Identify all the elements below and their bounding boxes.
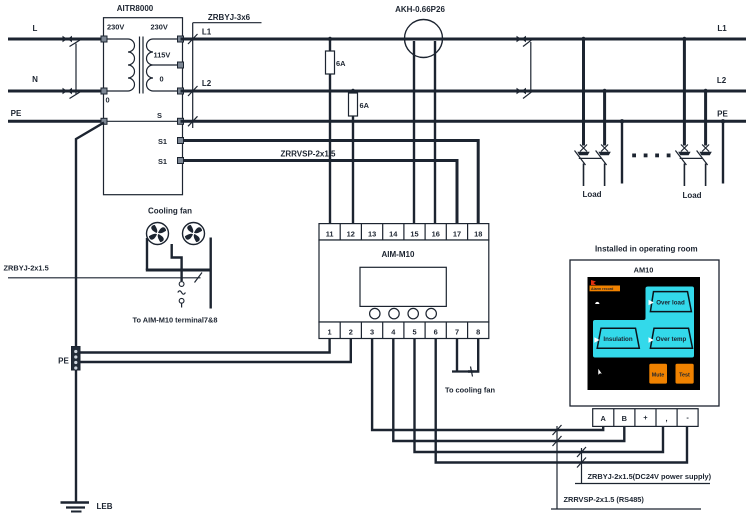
svg-text:115V: 115V bbox=[154, 51, 171, 60]
svg-text:Cooling fan: Cooling fan bbox=[148, 207, 192, 216]
svg-text:S1: S1 bbox=[158, 137, 167, 146]
svg-text:0: 0 bbox=[160, 75, 164, 84]
svg-text:Load: Load bbox=[682, 191, 701, 200]
svg-text:B: B bbox=[622, 414, 627, 423]
wire terminal 8 stub bbox=[468, 339, 478, 377]
load 2 label bbox=[682, 191, 701, 200]
breaker linkage 2 bbox=[680, 157, 703, 159]
fuse FU2 6A bbox=[349, 89, 370, 224]
svg-text:6: 6 bbox=[434, 328, 438, 337]
svg-text:L1: L1 bbox=[717, 24, 727, 33]
load branch 2 L1 drop bbox=[682, 37, 686, 146]
cable label ZRBYJ-3x6 bbox=[188, 13, 262, 128]
breaker QF1a bbox=[575, 145, 590, 187]
wire PE bus left bbox=[8, 120, 104, 123]
node N label bbox=[32, 75, 38, 84]
svg-text:3: 3 bbox=[370, 328, 374, 337]
svg-text:230V: 230V bbox=[107, 23, 124, 32]
svg-text:1: 1 bbox=[328, 328, 332, 337]
wire terminal 3 to panel A bbox=[372, 339, 603, 431]
button Over temp bbox=[649, 328, 693, 348]
wire CT secondary to terminal 15 bbox=[413, 41, 415, 224]
node L2 label right bbox=[717, 76, 727, 85]
switch linkage left bbox=[75, 44, 77, 95]
svg-text:5: 5 bbox=[412, 328, 416, 337]
svg-text:12: 12 bbox=[347, 230, 355, 239]
wire L1 bus bbox=[181, 38, 747, 41]
wire PE bus right bbox=[181, 120, 747, 123]
svg-text:Load: Load bbox=[582, 190, 601, 199]
svg-text:14: 14 bbox=[389, 230, 398, 239]
load 1 label bbox=[582, 190, 601, 199]
load branch 1 L2 drop bbox=[602, 89, 606, 146]
svg-text:AKH-0.66P26: AKH-0.66P26 bbox=[395, 5, 445, 14]
cable label ZRBYJ-2x1.5 bbox=[4, 264, 203, 283]
cable marker RS485 bbox=[551, 425, 701, 509]
svg-text:15: 15 bbox=[410, 230, 418, 239]
svg-text:8: 8 bbox=[476, 328, 480, 337]
cable marker DC24V bbox=[575, 447, 712, 484]
svg-text:L: L bbox=[33, 24, 38, 33]
svg-text:N: N bbox=[32, 75, 38, 84]
switch pole on L bbox=[63, 36, 83, 47]
button Mute bbox=[649, 364, 667, 384]
wire terminal 6 to panel minus bbox=[436, 339, 687, 463]
label to AIM-M10 terminal 7 8 bbox=[132, 316, 217, 325]
load branch 1 PE drop bbox=[620, 119, 624, 183]
node PE label right bbox=[717, 110, 728, 119]
switch pole on L2 right bbox=[517, 88, 534, 99]
switch pole on L1 right bbox=[517, 36, 534, 47]
node L2 label left bbox=[202, 79, 212, 88]
svg-text:ZRRVSP-2x1.5: ZRRVSP-2x1.5 bbox=[281, 150, 337, 159]
button Over load bbox=[649, 292, 692, 312]
svg-text:AM10: AM10 bbox=[634, 266, 654, 275]
ground LEB bbox=[61, 502, 113, 512]
wire terminal 1 to PE block bbox=[80, 339, 330, 353]
svg-text:Test: Test bbox=[679, 373, 690, 379]
svg-text:L1: L1 bbox=[202, 28, 212, 37]
wire CT secondary to terminal 16 bbox=[434, 41, 436, 224]
node L1 label right bbox=[717, 24, 727, 33]
svg-text:ZRBYJ-3x6: ZRBYJ-3x6 bbox=[208, 13, 251, 22]
svg-text:13: 13 bbox=[368, 230, 376, 239]
svg-text:18: 18 bbox=[474, 230, 482, 239]
load branch 2 PE drop bbox=[721, 119, 725, 183]
svg-text:Over load: Over load bbox=[656, 300, 685, 307]
svg-text:To cooling fan: To cooling fan bbox=[445, 386, 495, 395]
breaker QF2b bbox=[697, 145, 712, 187]
wire S1 lower to terminal 17 bbox=[184, 161, 458, 224]
monitor U1 AIM-M10 bbox=[319, 224, 489, 339]
label to cooling fan bbox=[445, 386, 495, 395]
button Test bbox=[676, 364, 694, 384]
wire PE to earth bbox=[76, 123, 104, 503]
node PE label bbox=[11, 109, 22, 118]
breaker QF2a bbox=[675, 145, 690, 187]
svg-text:6A: 6A bbox=[360, 101, 370, 110]
wire terminal 2 to PE block bbox=[80, 339, 351, 363]
svg-text:17: 17 bbox=[453, 230, 461, 239]
svg-text:7: 7 bbox=[455, 328, 459, 337]
wire S1 upper to terminal 18 bbox=[184, 141, 479, 224]
svg-text:Alarm record: Alarm record bbox=[591, 287, 613, 291]
svg-text:ZRBYJ-2x1.5(DC24V power supply: ZRBYJ-2x1.5(DC24V power supply) bbox=[588, 472, 712, 481]
svg-text:0: 0 bbox=[106, 96, 110, 105]
svg-text:Insulation: Insulation bbox=[603, 336, 632, 343]
current transformer AKH-0.66P26 bbox=[395, 5, 445, 58]
svg-text:PE: PE bbox=[11, 109, 22, 118]
alarm banner orange bbox=[590, 286, 621, 292]
transformer T1 AITR8000 bbox=[101, 4, 184, 195]
load branch 1 L1 drop bbox=[581, 37, 585, 146]
wire fan bracket bbox=[146, 238, 211, 309]
breaker linkage 1 bbox=[579, 157, 602, 159]
continuation dots bbox=[632, 154, 670, 158]
svg-text:L2: L2 bbox=[717, 76, 727, 85]
breaker QF1b bbox=[596, 145, 611, 187]
svg-text:A: A bbox=[601, 414, 607, 423]
node L1 label left bbox=[202, 28, 212, 37]
svg-text:,: , bbox=[665, 414, 667, 423]
svg-text:S: S bbox=[157, 111, 162, 120]
wire L bus bbox=[8, 38, 104, 41]
svg-text:PE: PE bbox=[717, 110, 728, 119]
svg-text:230V: 230V bbox=[151, 23, 168, 32]
cable label ZRRVSP-2x1.5 bbox=[281, 150, 337, 159]
wire terminal 4 to panel B bbox=[393, 339, 624, 442]
terminal block PE bbox=[58, 347, 80, 371]
alarm icon red bbox=[591, 280, 596, 285]
svg-text:2: 2 bbox=[349, 328, 353, 337]
wire terminal 5 to panel plus bbox=[415, 339, 664, 453]
svg-text:Installed in operating room: Installed in operating room bbox=[595, 245, 698, 254]
svg-text:+: + bbox=[643, 413, 648, 422]
svg-text:PE: PE bbox=[58, 357, 69, 366]
svg-text:S1: S1 bbox=[158, 157, 167, 166]
svg-text:6A: 6A bbox=[336, 59, 346, 68]
button Insulation bbox=[594, 328, 639, 348]
node L label bbox=[33, 24, 38, 33]
svg-text:AITR8000: AITR8000 bbox=[117, 4, 154, 13]
svg-text:To AIM-M10 terminal7&8: To AIM-M10 terminal7&8 bbox=[132, 316, 217, 325]
cursor arrow bbox=[598, 369, 602, 375]
cooling fan bbox=[147, 207, 205, 245]
wire L2 bus bbox=[181, 90, 747, 93]
svg-text:11: 11 bbox=[326, 230, 334, 239]
svg-text:ZRRVSP-2x1.5 (RS485): ZRRVSP-2x1.5 (RS485) bbox=[564, 495, 645, 504]
svg-text:AIM-M10: AIM-M10 bbox=[382, 250, 415, 259]
svg-text:L2: L2 bbox=[202, 79, 212, 88]
svg-text:LEB: LEB bbox=[97, 502, 113, 511]
wire terminal 7 stub bbox=[452, 339, 474, 372]
fuse FU1 6A bbox=[326, 37, 347, 224]
panel terminal strip A B + - bbox=[593, 409, 698, 427]
white indicator dot bbox=[595, 302, 599, 304]
switch pole on N bbox=[63, 88, 83, 99]
remote display AM10 bbox=[570, 245, 719, 407]
screen cyan panel bbox=[593, 287, 694, 358]
svg-text:ZRBYJ-2x1.5: ZRBYJ-2x1.5 bbox=[4, 264, 49, 273]
wire N bus bbox=[8, 90, 104, 93]
svg-text:16: 16 bbox=[432, 230, 440, 239]
load branch 2 L2 drop bbox=[703, 89, 707, 146]
svg-text:Over temp: Over temp bbox=[656, 336, 687, 343]
svg-text:Mute: Mute bbox=[652, 373, 665, 379]
fan plug connector bbox=[178, 282, 186, 308]
switch linkage right bbox=[530, 42, 532, 93]
